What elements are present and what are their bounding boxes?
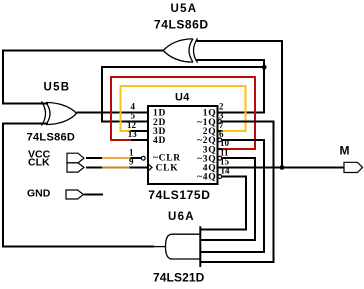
pin 6 bubble: [218, 138, 222, 142]
svg-text:9: 9: [129, 157, 134, 167]
wire U5B output to 1D: [77, 112, 149, 114]
svg-text:74LS86D: 74LS86D: [27, 131, 76, 143]
pin 9 clock triangle: [148, 164, 152, 171]
op-amp U5B XOR gate: [42, 102, 77, 126]
wire 4Q to M output: [218, 166, 345, 168]
wire U5A bottom input from 1Q loop: [197, 60, 265, 67]
wire VCC to ~CLR pin 1: [86, 157, 141, 159]
pin 3 bubble: [218, 120, 222, 124]
svg-text:GND: GND: [27, 187, 51, 199]
svg-text:CLK: CLK: [28, 156, 50, 168]
wire ~4Q to U6A input 1: [201, 177, 246, 230]
svg-text:M: M: [340, 144, 350, 158]
svg-text:U5A: U5A: [171, 3, 198, 15]
op-amp U6A AND gate flipped: [154, 226, 201, 267]
wire U6A output to U5B bottom input: [3, 124, 154, 247]
wire ~2Q to U6A input 3: [201, 140, 264, 252]
svg-text:74LS175D: 74LS175D: [148, 188, 210, 202]
svg-text:U4: U4: [175, 91, 190, 103]
connector VCC: [67, 153, 84, 163]
pin 1 bubble ~CLR: [141, 156, 145, 160]
connector M output: [344, 162, 363, 172]
svg-text:13: 13: [128, 129, 138, 139]
pin 11 bubble: [218, 156, 222, 160]
wire U5A top input from 4Q node: [197, 41, 283, 167]
connector GND: [66, 190, 84, 199]
pin 14 bubble: [218, 175, 222, 179]
svg-text:~CLR: ~CLR: [153, 153, 181, 163]
op U4 chip body 74LS175D: [148, 106, 218, 184]
wire GND stub: [84, 194, 103, 196]
wire CLK to CLK pin 9: [86, 166, 148, 168]
svg-text:U6A: U6A: [168, 211, 195, 223]
wire ~3Q to U6A input 2: [201, 158, 255, 240]
svg-text:U5B: U5B: [44, 81, 71, 93]
node junction dot on 1Q loop: [262, 65, 267, 70]
wire 2Q to 3D yellow loop: [120, 86, 245, 131]
wire U5A output to U5B top input: [3, 51, 163, 104]
svg-text:74LS21D: 74LS21D: [153, 270, 205, 284]
svg-text:4D: 4D: [153, 136, 166, 146]
wire ~1Q to U6A input 4: [201, 122, 274, 262]
svg-text:74LS86D: 74LS86D: [154, 18, 209, 32]
svg-text:14: 14: [221, 166, 231, 176]
node junction dot on 4Q line: [280, 165, 285, 170]
wire 1Q to 2D black loop: [102, 67, 264, 121]
svg-text:~4Q: ~4Q: [197, 173, 216, 183]
op-amp U5A XOR gate flipped: [163, 38, 197, 62]
connector CLK: [67, 163, 84, 172]
wire 3Q to 4D red loop: [111, 77, 255, 149]
svg-text:CLK: CLK: [156, 163, 179, 173]
